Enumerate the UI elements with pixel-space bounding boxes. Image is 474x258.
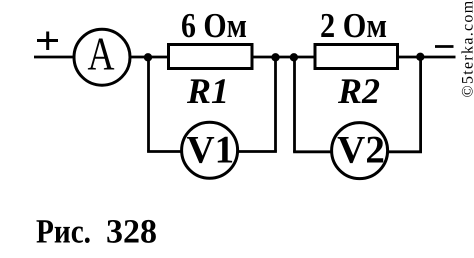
- plus terminal: [37, 32, 58, 51]
- caption Рис. 328: [36, 214, 157, 251]
- svg-text:R2: R2: [337, 71, 380, 111]
- wire V2 bottom: [293, 150, 422, 153]
- label R1: [186, 71, 229, 111]
- value label 6 Ом: [181, 6, 247, 45]
- svg-text:328: 328: [106, 214, 157, 251]
- node junction dot right of R2: [416, 53, 424, 61]
- node junction dot left of R1: [144, 53, 152, 61]
- svg-text:V1: V1: [186, 129, 234, 172]
- node junction dot V2 left: [290, 53, 298, 61]
- minus terminal: [435, 45, 454, 48]
- wire R2 to minus terminal: [398, 56, 456, 59]
- wire V1 left branch: [147, 57, 150, 152]
- label R2: [337, 71, 380, 111]
- wire R1 to R2: [252, 56, 316, 59]
- svg-text:Рис.: Рис.: [36, 214, 91, 251]
- svg-text:6 Ом: 6 Ом: [181, 6, 247, 45]
- wire V2 right branch: [419, 57, 422, 152]
- svg-text:©5terka.com: ©5terka.com: [460, 0, 474, 98]
- resistor R2: [315, 45, 398, 69]
- wire battery plus lead: [34, 56, 74, 59]
- ammeter A: [74, 29, 130, 86]
- svg-text:V2: V2: [337, 129, 385, 172]
- resistor R1: [169, 45, 253, 69]
- wire ammeter to node: [130, 56, 169, 59]
- voltmeter V1: [182, 122, 238, 178]
- wire V1 bottom: [147, 150, 277, 153]
- wire V2 left branch: [293, 57, 296, 152]
- voltmeter V2: [332, 123, 388, 179]
- svg-text:A: A: [88, 29, 115, 81]
- node junction dot V1 right: [271, 53, 279, 61]
- svg-text:2 Ом: 2 Ом: [320, 6, 387, 45]
- watermark 5terka.com: [460, 0, 474, 98]
- svg-text:R1: R1: [186, 71, 229, 111]
- wire V1 right branch: [274, 57, 277, 152]
- value label 2 Ом: [320, 6, 387, 45]
